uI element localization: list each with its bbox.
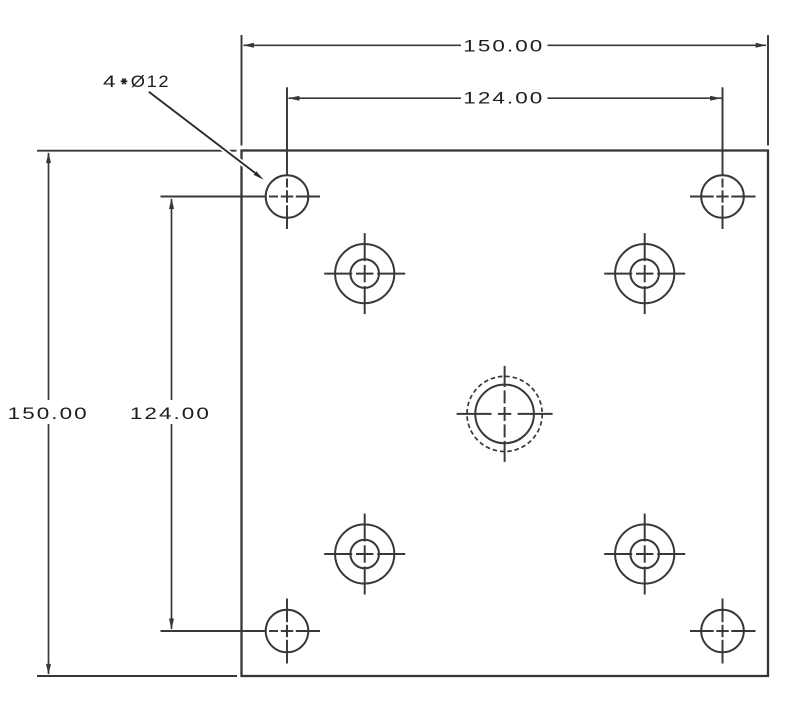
- svg-text:124.00: 124.00: [130, 405, 211, 423]
- svg-text:Ø12: Ø12: [131, 73, 171, 91]
- svg-text:150.00: 150.00: [463, 37, 544, 55]
- svg-text:150.00: 150.00: [8, 405, 89, 423]
- svg-text:4: 4: [103, 73, 116, 91]
- svg-text:124.00: 124.00: [463, 89, 544, 107]
